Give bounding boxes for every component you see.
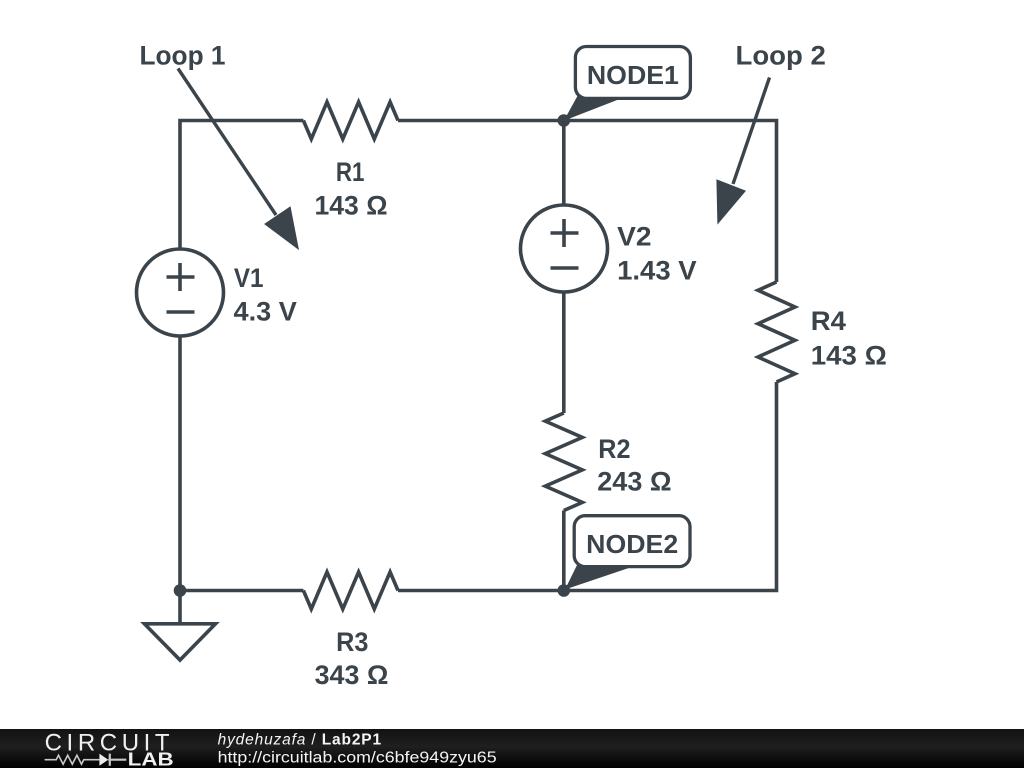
resistor R4: [758, 282, 795, 382]
ground: [144, 624, 215, 660]
wire: top-left corner run (left vertical upper + top wire to R1): [180, 121, 303, 250]
wire: right vertical below R4 + bottom wire to R3: [398, 382, 777, 591]
svg-text:NODE2: NODE2: [586, 529, 678, 559]
CircuitLab logo resistor squiggle: [45, 755, 100, 764]
Loop 1 arrow line: [178, 69, 276, 216]
svg-text:343 Ω: 343 Ω: [315, 660, 389, 690]
ground stub wire: [178, 591, 182, 624]
svg-text:R1: R1: [336, 157, 365, 187]
svg-text:V2: V2: [617, 222, 651, 252]
wire: middle vertical from NODE1 to V2 top: [562, 121, 566, 206]
value label V1 4.3 V: [234, 263, 297, 326]
svg-text:143 Ω: 143 Ω: [315, 190, 388, 220]
svg-text:R3: R3: [336, 627, 368, 657]
Loop 2 arrow line: [733, 78, 770, 185]
voltage source V2: [521, 205, 608, 292]
svg-text:Loop 1: Loop 1: [140, 40, 226, 70]
voltage source V1: [137, 249, 224, 336]
node B junction dot bottom-left: [174, 584, 187, 597]
value label R4 143 Ω: [811, 306, 887, 370]
wire: middle vertical from V2 bottom to R2: [562, 292, 566, 413]
Loop 1 arrowhead: [264, 206, 299, 250]
svg-text:R2: R2: [598, 434, 630, 464]
svg-text:Loop 2: Loop 2: [736, 40, 826, 70]
node NODE2 callout box: [574, 516, 690, 567]
resistor R2: [545, 413, 582, 511]
node C junction dot at NODE2: [558, 584, 571, 597]
node A junction dot at NODE1: [558, 114, 571, 127]
svg-text:243 Ω: 243 Ω: [597, 467, 671, 497]
footer bar: [0, 729, 1024, 768]
value label V2 1.43 V: [617, 222, 697, 286]
svg-text:LAB: LAB: [128, 750, 174, 768]
value label R2 243 Ω: [597, 434, 671, 497]
svg-text:143 Ω: 143 Ω: [811, 340, 887, 370]
node NODE1 callout tail: [564, 95, 622, 121]
svg-text:http://circuitlab.com/c6bfe949: http://circuitlab.com/c6bfe949zyu65: [218, 749, 497, 766]
svg-text:4.3 V: 4.3 V: [234, 296, 297, 326]
svg-text:hydehuzafa / Lab2P1: hydehuzafa / Lab2P1: [218, 732, 382, 749]
value label R1 143 Ω: [315, 157, 388, 220]
node NODE2 callout tail: [565, 563, 635, 590]
Loop 2 arrowhead: [716, 179, 746, 224]
svg-text:1.43 V: 1.43 V: [617, 255, 697, 285]
wire: bottom wire left of R3 + left vertical up to V1 bottom: [180, 336, 303, 591]
wire: middle vertical from R2 to NODE2: [562, 511, 566, 591]
svg-text:NODE1: NODE1: [587, 60, 679, 90]
svg-text:R4: R4: [811, 306, 846, 336]
resistor R3: [303, 572, 398, 609]
value label R3 343 Ω: [315, 627, 389, 690]
CircuitLab logo diode: [99, 754, 108, 766]
wire: top wire right of R1 + right vertical down to R4: [398, 121, 777, 283]
node NODE1 callout box: [575, 47, 690, 99]
resistor R1: [303, 102, 398, 139]
svg-text:V1: V1: [234, 263, 264, 293]
